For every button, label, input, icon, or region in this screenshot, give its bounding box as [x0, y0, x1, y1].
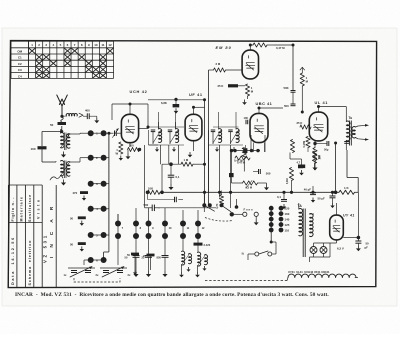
B+ rail horizontal — [205, 191, 340, 193]
pilot lamp 2 — [320, 247, 327, 254]
tube UF41 — [185, 114, 202, 140]
speaker arrows — [365, 124, 369, 127]
title block grid — [7, 185, 9, 287]
wire 100 down — [41, 149, 43, 162]
IFT2 unit A — [211, 129, 216, 131]
wire UCH42 anode up — [129, 104, 131, 114]
wire UY41 cathode right — [343, 237, 358, 239]
resistor 1W vertical at UCH42 — [119, 142, 123, 154]
tube UY41 — [330, 215, 344, 240]
wire ant to junction — [61, 126, 63, 132]
resistor 1K B+ — [339, 190, 355, 194]
phono contact a — [243, 212, 247, 216]
resistor 150 vertical — [312, 151, 316, 164]
coil L1 ground — [63, 152, 65, 155]
IFT2 grounds — [216, 147, 218, 149]
antenna lead squiggle — [61, 117, 64, 122]
UL41 cathode cap — [326, 141, 328, 146]
resistor 0.1M vertical — [289, 168, 293, 181]
wire vertical bus A — [204, 99, 206, 205]
border frame — [8, 41, 376, 288]
resistor 1M right — [300, 73, 304, 86]
coil L2 ground — [63, 180, 65, 183]
junction dots on B+ rail — [203, 191, 206, 194]
wafer bus line — [158, 207, 216, 209]
ground volume — [266, 185, 268, 188]
wire IFT2 tops up — [218, 112, 220, 129]
wire right top — [274, 44, 293, 46]
IFT1 unit B — [168, 129, 173, 131]
output transformer Tu primary — [346, 121, 350, 141]
UL41 ground — [314, 165, 316, 168]
tuning gang section 1 — [68, 267, 95, 269]
resistor box small UBC — [243, 148, 247, 153]
capacitor black box left UL41 — [290, 158, 302, 160]
coil L1 arrow — [61, 134, 70, 148]
wire 1K junction — [334, 191, 338, 195]
wire L2 to switch 2 — [70, 161, 80, 163]
wire UY heater — [336, 240, 338, 243]
voltage selector taps — [269, 206, 274, 211]
switch contact pair 1 — [88, 130, 94, 136]
wire IFT2 bottom rail — [209, 144, 244, 146]
wire bus col — [117, 214, 119, 224]
resistor 0.47M vertical — [242, 148, 246, 159]
gang dashed coupling — [74, 278, 120, 282]
electrolytic 50uF right edge — [357, 238, 359, 242]
TA top wires — [298, 203, 300, 209]
wire B+ feedback vertical — [335, 143, 337, 192]
wire UBC drops — [250, 135, 252, 152]
wire to 100 resistor — [42, 131, 62, 133]
resistor 1M EM80 cathode — [245, 84, 249, 96]
resistor 0.47M lower — [290, 140, 294, 153]
dashed heater line — [205, 280, 287, 282]
wire UCH segments — [121, 129, 123, 134]
phono contact b — [254, 212, 258, 216]
UCH42 ground lead — [129, 143, 131, 147]
IFT1 top wires — [148, 126, 184, 128]
wire UBC41 bottom — [253, 143, 255, 152]
power transformer TA secondary — [310, 214, 314, 237]
capacitor on primary drop — [344, 141, 350, 143]
coil L2 — [61, 161, 64, 176]
UL41 screen resistor 0.47M — [306, 137, 310, 148]
trimmer C to UCH42 grid — [109, 132, 114, 134]
power transformer TA primary — [299, 209, 303, 236]
IFT2 unit B — [228, 129, 233, 131]
wire UL41 anode — [318, 107, 320, 113]
tube UCH42 — [121, 114, 138, 142]
resistor 0.47M top — [253, 43, 267, 47]
dashed link under switch — [205, 218, 233, 222]
band switch table grid — [11, 40, 114, 42]
wire right section — [275, 242, 277, 254]
wire L1 to switch 1 — [70, 133, 80, 135]
coil L1 — [61, 133, 64, 148]
wire IF drops right — [208, 145, 210, 192]
padder trimmer 2-420 — [194, 243, 203, 246]
switch pair6 wires — [84, 259, 89, 261]
osc coil pair A — [182, 251, 185, 265]
wire UF41 top — [193, 107, 195, 114]
tube EM80 — [242, 50, 258, 79]
switch contact pair 6 — [88, 257, 94, 263]
wire 1M down — [301, 86, 303, 112]
lower wafer risers — [135, 208, 137, 224]
wire lamps bottom — [309, 257, 311, 262]
wire IFT1 tops up — [158, 112, 160, 129]
phono switch arm — [230, 212, 234, 216]
tube UL41 — [309, 112, 327, 141]
coil L2 arrow — [61, 162, 70, 176]
capacitor C-ant 50 — [58, 122, 67, 125]
switch contact pair 3 — [88, 181, 94, 187]
coil input — [66, 113, 77, 116]
ground input — [96, 118, 98, 121]
tube UBC41 — [250, 113, 268, 142]
osc coil pair B — [198, 252, 201, 266]
capacitor h mid — [174, 197, 176, 203]
junction dots misc — [203, 163, 206, 166]
output transformer Tu secondary — [352, 127, 355, 138]
wire left verticals — [203, 192, 205, 212]
switch contact pair 5 — [88, 232, 94, 238]
switch contact pair 4 — [88, 206, 94, 212]
phono ground — [255, 216, 257, 219]
switch bus vertical — [108, 133, 110, 236]
wire IF drops left — [144, 145, 146, 208]
handwritten mark — [50, 175, 63, 180]
switch contact pair 2 — [88, 155, 94, 161]
lower switch wafer dot pairs — [115, 221, 121, 227]
capacitor black square UBC — [229, 173, 234, 177]
mains switch — [255, 252, 259, 256]
ground under 1W — [120, 156, 122, 159]
UL41 cathode resistor 160 — [313, 148, 317, 161]
resistor 1M under UF41 — [181, 162, 193, 166]
wire wafer to gang2 — [117, 236, 119, 265]
wire IFT1 bottom rail — [149, 144, 185, 146]
wire osc to gang — [96, 257, 104, 259]
pilot lamp 1 — [310, 247, 317, 254]
volume pot 0.5M — [243, 181, 258, 185]
ground under 200 — [127, 154, 129, 157]
resistor 100 — [38, 146, 47, 149]
table X marks — [29, 48, 35, 54]
wire bus to pair6 — [108, 236, 110, 252]
wire vertical bus B — [208, 70, 210, 205]
IFT1 grounds — [156, 147, 158, 149]
UF41 ground — [193, 141, 195, 151]
wire UCH42 top bus — [112, 103, 130, 105]
resistor 0.47M under UBC41 — [235, 156, 250, 160]
resistor 4.7K vertical — [219, 195, 223, 205]
IFT1 unit A — [151, 129, 156, 131]
heater dropping resistor — [288, 274, 356, 277]
UBC41 junction row — [232, 150, 261, 152]
switch bus stubs — [106, 132, 109, 134]
voltage selector stem — [270, 208, 272, 234]
wire UBC41 anode — [258, 108, 260, 113]
tuning gang section 2 — [100, 267, 127, 269]
antenna — [57, 95, 68, 117]
EM80 ground — [247, 96, 249, 99]
switch arm diagonal — [204, 205, 231, 212]
wire UY41 top — [336, 203, 338, 215]
